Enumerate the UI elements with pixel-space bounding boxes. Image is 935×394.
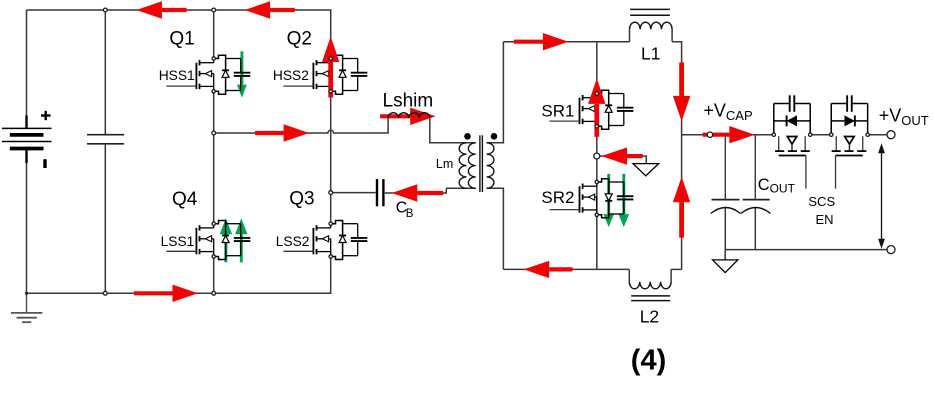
svg-text:Q2: Q2	[287, 29, 312, 50]
svg-text:Q3: Q3	[289, 188, 314, 209]
svg-text:(4): (4)	[631, 345, 666, 377]
svg-text:HSS2: HSS2	[273, 68, 309, 83]
svg-text:Lm: Lm	[436, 157, 453, 171]
svg-text:L1: L1	[641, 44, 660, 64]
svg-text:C: C	[758, 176, 770, 194]
svg-text:HSS1: HSS1	[159, 68, 195, 83]
svg-text:B: B	[406, 208, 414, 220]
svg-text:EN: EN	[816, 212, 834, 227]
svg-text:SCS: SCS	[808, 194, 835, 209]
svg-text:OUT: OUT	[901, 113, 929, 128]
svg-text:+V: +V	[879, 106, 902, 126]
svg-text:OUT: OUT	[770, 182, 796, 196]
svg-text:SR1: SR1	[541, 102, 574, 121]
svg-text:LSS2: LSS2	[276, 234, 310, 249]
svg-text:L2: L2	[640, 307, 659, 327]
svg-text:SR2: SR2	[541, 188, 574, 207]
svg-text:Lshim: Lshim	[383, 91, 434, 112]
svg-text:+V: +V	[703, 101, 726, 121]
svg-text:Q1: Q1	[169, 29, 194, 50]
svg-text:LSS1: LSS1	[161, 234, 195, 249]
svg-text:Q4: Q4	[172, 189, 198, 210]
svg-text:CAP: CAP	[726, 108, 753, 123]
